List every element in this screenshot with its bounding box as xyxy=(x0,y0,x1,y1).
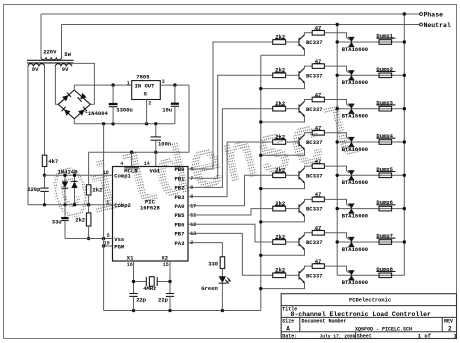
svg-text:4MHz: 4MHz xyxy=(143,285,156,292)
wire to 4k7 xyxy=(44,66,46,155)
resistor R1 4k7 xyxy=(42,155,47,166)
wire base ch4 xyxy=(286,141,299,143)
wire base ch5 xyxy=(286,174,299,176)
svg-text:2: 2 xyxy=(190,240,193,246)
svg-text:2: 2 xyxy=(448,326,452,333)
triac BTA16600 ch6 xyxy=(342,204,368,220)
wire base ch3 xyxy=(286,108,299,110)
svg-text:5: 5 xyxy=(107,233,110,239)
svg-text:BC337: BC337 xyxy=(306,106,323,113)
wire MCLR xyxy=(131,152,133,166)
wire Neutral line xyxy=(62,24,420,26)
svg-text:BC337: BC337 xyxy=(306,39,323,46)
svg-text:Document Number: Document Number xyxy=(302,319,347,325)
wire emitter ch5 xyxy=(261,183,305,189)
wire PIC to 2k2 ch3 xyxy=(188,109,273,188)
junction xyxy=(168,280,171,283)
junction xyxy=(403,40,406,43)
wire node A (Comp1 net) xyxy=(45,174,113,176)
svg-text:1N4148: 1N4148 xyxy=(58,169,79,176)
node Neutral xyxy=(420,23,423,26)
wire X2 xyxy=(169,261,171,293)
svg-text:PB1: PB1 xyxy=(175,175,186,182)
wire ground rail bottom xyxy=(104,310,261,312)
junction xyxy=(259,287,262,290)
wire bridge- to ground rail xyxy=(73,119,75,124)
resistor 2k2 ch3 xyxy=(273,106,286,111)
junction xyxy=(259,187,262,190)
svg-text:Green: Green xyxy=(201,285,218,292)
svg-text:BTA16600: BTA16600 xyxy=(342,79,368,86)
svg-text:Comp2: Comp2 xyxy=(114,202,131,209)
diode D1 1N4148 xyxy=(62,175,68,205)
junction xyxy=(111,122,114,125)
bridge rectifier 1N4004 xyxy=(58,90,90,119)
triac BTA16600 ch2 xyxy=(342,71,368,87)
svg-text:14: 14 xyxy=(144,161,150,167)
svg-text:BTA16600: BTA16600 xyxy=(342,146,368,153)
svg-text:BTA16600: BTA16600 xyxy=(342,113,368,120)
svg-text:4k7: 4k7 xyxy=(48,158,58,165)
junction xyxy=(403,174,406,177)
wire gate ch1 xyxy=(324,33,346,38)
resistor 2k2 ch8 xyxy=(273,273,286,278)
junction xyxy=(168,309,171,312)
junction xyxy=(87,203,90,206)
junction xyxy=(336,174,339,177)
resistor 2k2 ch4 xyxy=(273,140,286,145)
svg-text:2: 2 xyxy=(148,100,151,106)
svg-text:BTA16600: BTA16600 xyxy=(342,213,368,220)
svg-text:2k2: 2k2 xyxy=(92,186,102,193)
wire collector ch5 xyxy=(305,166,313,168)
wire PIC to 2k2 ch1 xyxy=(188,42,273,169)
transistor Q8 BC337 xyxy=(299,268,323,283)
junction xyxy=(87,237,90,240)
wire collector ch3 xyxy=(305,100,313,102)
svg-text:PB2: PB2 xyxy=(175,185,185,192)
junction xyxy=(145,122,148,125)
resistor Dump4 load xyxy=(379,140,392,145)
svg-text:Vdd: Vdd xyxy=(150,167,160,174)
wire PIC to 2k2 ch2 xyxy=(188,75,273,178)
svg-text:9V: 9V xyxy=(32,66,39,73)
capacitor C7 22p xyxy=(129,294,137,311)
svg-text:PB5: PB5 xyxy=(175,212,186,219)
wire gate ch4 xyxy=(324,133,346,138)
svg-text:330: 330 xyxy=(208,260,218,267)
capacitor C1 3300u xyxy=(109,85,118,124)
svg-text:July 17, 2009: July 17, 2009 xyxy=(320,333,356,339)
capacitor C8 22p xyxy=(166,294,174,311)
junction xyxy=(403,12,406,15)
node Phase xyxy=(420,13,423,16)
svg-text:Comp1: Comp1 xyxy=(114,173,131,180)
capacitor C5 220p xyxy=(40,175,48,205)
junction xyxy=(102,122,105,125)
junction xyxy=(111,83,114,86)
wire xyxy=(221,269,223,277)
junction xyxy=(259,220,262,223)
triac BTA16600 ch1 xyxy=(342,37,368,53)
resistor Dump7 load xyxy=(379,240,392,245)
svg-text:PA3: PA3 xyxy=(175,240,186,247)
junction xyxy=(132,280,135,283)
resistor Dump6 load xyxy=(379,206,392,211)
wire emitter ch7 xyxy=(261,249,305,255)
node channel 1 xyxy=(188,25,406,169)
resistor Dump8 load xyxy=(379,273,392,278)
wire primary right leg xyxy=(61,25,63,58)
wire to bridge AC left xyxy=(55,66,58,104)
wire triac to dump ch5 xyxy=(337,174,404,176)
svg-text:5W: 5W xyxy=(64,51,71,58)
wire emitter ch6 xyxy=(261,216,305,222)
svg-text:BTA16600: BTA16600 xyxy=(342,246,368,253)
svg-text:16: 16 xyxy=(127,262,133,268)
wire primary left leg xyxy=(40,14,42,57)
resistor 47 ch5 xyxy=(312,164,324,169)
transistor Q5 BC337 xyxy=(299,168,323,183)
junction xyxy=(259,154,262,157)
svg-text:11: 11 xyxy=(190,213,196,219)
junction xyxy=(154,122,157,125)
svg-text:6: 6 xyxy=(190,167,193,173)
triac BTA16600 ch3 xyxy=(342,104,368,120)
svg-text:33u: 33u xyxy=(52,218,62,225)
resistor 47 ch6 xyxy=(312,197,324,202)
transistor Q4 BC337 xyxy=(299,135,323,150)
resistor 47 ch4 xyxy=(312,131,324,136)
wire gate ch2 xyxy=(324,66,346,71)
svg-text:9V: 9V xyxy=(62,66,69,73)
transformer core xyxy=(27,59,74,61)
junction xyxy=(43,174,46,177)
node channel 2 xyxy=(188,58,406,178)
wire emitter ch4 xyxy=(261,149,305,155)
resistor 2k2 ch2 xyxy=(273,73,286,78)
svg-text:9: 9 xyxy=(190,194,193,200)
node channel 8 xyxy=(188,233,404,290)
svg-text:8-channel Electronic Load Cont: 8-channel Electronic Load Controller xyxy=(291,311,432,318)
node channel 5 xyxy=(188,158,406,206)
junction xyxy=(403,107,406,110)
svg-text:FCDelectronic: FCDelectronic xyxy=(349,298,391,304)
wire triac to dump ch1 xyxy=(337,41,404,43)
wire ground rail upper xyxy=(74,123,175,125)
wire PIC to 2k2 ch8 xyxy=(188,233,273,275)
svg-text:220p: 220p xyxy=(27,186,41,193)
junction xyxy=(130,151,133,154)
wire PA3 to LED xyxy=(188,243,222,257)
wire collector ch2 xyxy=(305,66,313,68)
svg-text:16F628: 16F628 xyxy=(140,205,161,212)
wire gate ch8 xyxy=(324,266,346,271)
wire 7805 out xyxy=(160,84,189,86)
svg-text:A: A xyxy=(286,326,290,333)
resistor Dump1 load xyxy=(379,40,392,45)
wire emitter bus xyxy=(260,55,262,310)
wire xyxy=(44,167,46,176)
junction xyxy=(43,203,46,206)
wire emitter ch8 xyxy=(261,283,305,289)
resistor Dump5 load xyxy=(379,173,392,178)
wire neutral bus xyxy=(336,25,338,276)
wire base ch2 xyxy=(286,74,299,76)
junction xyxy=(132,309,135,312)
wire collector ch6 xyxy=(305,199,313,201)
wire emitter ch1 xyxy=(261,49,305,55)
svg-text:PGM: PGM xyxy=(114,243,125,250)
wire PIC to 2k2 ch5 xyxy=(188,175,273,206)
node channel 7 xyxy=(188,224,406,257)
svg-text:BTA16600: BTA16600 xyxy=(342,179,368,186)
resistor 2k2 ch5 xyxy=(273,173,286,178)
diode D2 1N4148 xyxy=(71,175,77,205)
junction xyxy=(336,107,339,110)
wire gate ch7 xyxy=(324,233,346,238)
wire base ch6 xyxy=(286,208,299,210)
IC U1 PIC 16F628 xyxy=(113,167,189,262)
resistor 47 ch8 xyxy=(312,264,324,269)
junction xyxy=(73,203,76,206)
wire collector ch7 xyxy=(305,233,313,235)
svg-text:PB6: PB6 xyxy=(175,221,185,228)
resistor Dump3 load xyxy=(379,106,392,111)
wire gate ch3 xyxy=(324,100,346,105)
svg-text:13: 13 xyxy=(190,231,196,237)
wire PIC to 2k2 ch6 xyxy=(188,209,273,215)
wire +5V to Vdd xyxy=(89,85,189,152)
svg-text:1: 1 xyxy=(127,80,130,86)
svg-text:17: 17 xyxy=(190,203,196,209)
capacitor C4 100n xyxy=(151,124,161,152)
resistor 2k2 ch1 xyxy=(273,40,286,45)
wire triac to dump ch3 xyxy=(337,108,404,110)
junction xyxy=(63,203,66,206)
junction xyxy=(221,309,224,312)
svg-text:X2: X2 xyxy=(162,255,169,262)
transformer TR1 secondary 9V left xyxy=(28,64,45,67)
transistor Q7 BC337 xyxy=(299,235,323,250)
junction xyxy=(403,140,406,143)
node channel 3 xyxy=(188,91,406,187)
svg-text:BC337: BC337 xyxy=(306,172,323,179)
junction xyxy=(102,244,105,247)
svg-text:12: 12 xyxy=(190,222,196,228)
svg-text:220V: 220V xyxy=(43,49,57,56)
svg-text:1N4004: 1N4004 xyxy=(88,110,109,117)
capacitor C6 33u xyxy=(61,205,68,239)
svg-text:BC337: BC337 xyxy=(306,72,323,79)
wire PGM net xyxy=(104,245,113,247)
junction xyxy=(154,151,157,154)
watermark xyxy=(47,95,368,244)
junction xyxy=(403,207,406,210)
resistor 47 ch7 xyxy=(312,231,324,236)
svg-text:G: G xyxy=(144,90,148,97)
svg-text:PA0: PA0 xyxy=(175,203,185,210)
resistor R2 2k2 xyxy=(86,152,91,205)
wire gate ch5 xyxy=(324,166,346,171)
wire bridge+ to rail xyxy=(73,85,75,90)
svg-text:22p: 22p xyxy=(136,296,147,303)
wire PIC to 2k2 ch7 xyxy=(188,224,273,242)
LED D3 Green xyxy=(219,276,231,283)
svg-text:10u: 10u xyxy=(162,106,172,113)
wire Vss net xyxy=(65,238,113,240)
wire triac to dump ch4 xyxy=(337,141,404,143)
wire triac to dump ch7 xyxy=(337,241,404,243)
resistor 2k2 ch7 xyxy=(273,240,286,245)
junction xyxy=(336,23,339,26)
svg-text:Sheet: Sheet xyxy=(357,333,372,339)
svg-text:REV: REV xyxy=(444,319,453,325)
junction xyxy=(403,74,406,77)
junction xyxy=(336,140,339,143)
transistor Q6 BC337 xyxy=(299,201,323,216)
resistor R3 2k2 xyxy=(86,205,91,239)
triac BTA16600 ch5 xyxy=(342,171,368,187)
junction xyxy=(336,240,339,243)
svg-text:8: 8 xyxy=(190,185,193,191)
wire emitter ch3 xyxy=(261,116,305,122)
junction xyxy=(73,174,76,177)
node channel 6 xyxy=(188,191,406,223)
resistor 47 ch3 xyxy=(312,97,324,102)
junction xyxy=(102,237,105,240)
wire collector ch8 xyxy=(305,266,313,268)
wire base ch8 xyxy=(286,274,299,276)
capacitor C3 10u xyxy=(171,85,179,124)
wire collector ch4 xyxy=(305,133,313,135)
svg-text:BC337: BC337 xyxy=(306,139,323,146)
transistor Q2 BC337 xyxy=(299,68,323,83)
svg-text:BTA16600: BTA16600 xyxy=(342,46,368,53)
svg-text:3300u: 3300u xyxy=(116,106,133,113)
junction xyxy=(259,87,262,90)
wire triac to dump ch8 xyxy=(337,274,404,276)
svg-text:IN OUT: IN OUT xyxy=(135,83,156,90)
wire +V unreg rail xyxy=(74,84,131,86)
wire base ch1 xyxy=(286,41,299,43)
wire collector ch1 xyxy=(305,33,313,35)
svg-text:BTA16600: BTA16600 xyxy=(342,279,368,286)
wire Vdd xyxy=(155,152,157,166)
svg-text:22p: 22p xyxy=(158,296,169,303)
svg-text:7805: 7805 xyxy=(136,73,150,80)
svg-text:10: 10 xyxy=(104,241,110,247)
svg-text:1: 1 xyxy=(106,200,109,206)
wire ground drop xyxy=(103,124,105,311)
triac BTA16600 ch4 xyxy=(342,137,368,153)
svg-text:BC337: BC337 xyxy=(306,206,323,213)
svg-text:3: 3 xyxy=(162,79,165,85)
svg-text:Date:: Date: xyxy=(282,333,297,339)
wire 7805 gnd xyxy=(146,100,148,124)
svg-text:PB7: PB7 xyxy=(175,231,185,238)
svg-text:18: 18 xyxy=(103,170,109,176)
wire triac to dump ch6 xyxy=(337,208,404,210)
svg-text:X1: X1 xyxy=(127,255,134,262)
svg-text:7: 7 xyxy=(190,176,193,182)
wire xyxy=(221,283,223,310)
junction xyxy=(336,40,339,43)
wire X1 xyxy=(133,261,135,293)
wire PIC to 2k2 ch4 xyxy=(188,142,273,197)
svg-text:Neutral: Neutral xyxy=(424,22,451,29)
resistor R4 330 xyxy=(220,257,225,269)
triac BTA16600 ch8 xyxy=(342,271,368,287)
transistor Q1 BC337 xyxy=(299,35,323,50)
wire base ch7 xyxy=(286,241,299,243)
svg-text:Size: Size xyxy=(282,319,294,325)
transformer TR1 primary 220V xyxy=(41,57,62,60)
junction xyxy=(259,254,262,257)
svg-text:100n: 100n xyxy=(158,140,171,147)
resistor 47 ch1 xyxy=(312,31,324,36)
node channel 4 xyxy=(188,125,406,197)
transformer TR1 secondary 9V right xyxy=(55,64,71,67)
resistor Dump2 load xyxy=(379,73,392,78)
resistor 2k2 ch6 xyxy=(273,206,286,211)
svg-text:15: 15 xyxy=(163,262,169,268)
regulator U2 7805 xyxy=(132,73,161,99)
junction xyxy=(336,74,339,77)
junction xyxy=(403,240,406,243)
triac BTA16600 ch7 xyxy=(342,237,368,253)
wire triac to dump ch2 xyxy=(337,74,404,76)
svg-text:XQ6F0D - PICELC.SCH: XQ6F0D - PICELC.SCH xyxy=(355,326,412,332)
wire Phase line xyxy=(41,13,420,15)
svg-text:1 of: 1 of xyxy=(418,332,432,339)
junction xyxy=(63,174,66,177)
title block xyxy=(281,294,457,340)
svg-text:Vss: Vss xyxy=(114,236,124,243)
junction xyxy=(173,83,176,86)
junction xyxy=(336,207,339,210)
svg-text:BC337: BC337 xyxy=(306,239,323,246)
wire emitter ch2 xyxy=(261,83,305,89)
crystal Y1 4MHz xyxy=(134,277,171,287)
svg-text:4: 4 xyxy=(120,161,123,167)
wire node B (Comp2 net) xyxy=(28,66,113,204)
resistor 47 ch2 xyxy=(312,64,324,69)
wire to bridge AC right xyxy=(72,63,95,104)
wire phase bus xyxy=(403,14,405,275)
svg-text:BC337: BC337 xyxy=(306,272,323,279)
svg-text:Phase: Phase xyxy=(424,11,444,18)
svg-text:2k2: 2k2 xyxy=(75,217,85,224)
wire gate ch6 xyxy=(324,199,346,204)
transistor Q3 BC337 xyxy=(299,101,323,116)
svg-text:PB0: PB0 xyxy=(175,166,185,173)
svg-text:PB3: PB3 xyxy=(175,194,186,201)
junction xyxy=(259,120,262,123)
